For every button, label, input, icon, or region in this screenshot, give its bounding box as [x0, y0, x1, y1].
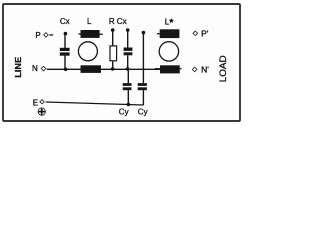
node junction dot top of Cx2 [126, 28, 130, 32]
svg-text:Cy: Cy [119, 108, 129, 117]
node junction dot Cy1 on earth line [127, 103, 131, 107]
wire earth line [46, 102, 144, 105]
capacitor Cy1 [123, 83, 132, 105]
terminal N' [192, 67, 197, 72]
capacitor Cx2 [124, 30, 133, 69]
wire N line [47, 68, 160, 70]
resistor R [110, 30, 117, 69]
node junction dot Cx1 on N line [64, 68, 68, 72]
svg-text:L: L [165, 17, 170, 26]
wire P stub [49, 34, 53, 36]
node junction dot R on N line [111, 67, 115, 71]
wire Cy2 branch vertical [142, 33, 144, 84]
svg-text:LOAD: LOAD [218, 55, 229, 82]
svg-text:LINE: LINE [13, 57, 23, 78]
node junction dot top of R [111, 28, 115, 32]
wire Cx2 down to Cy1 [127, 69, 129, 83]
svg-text:E: E [33, 98, 38, 107]
border frame [3, 4, 240, 121]
svg-text:N': N' [201, 65, 209, 75]
node junction dot top of Cy2 branch [142, 31, 146, 35]
svg-text:Cy: Cy [138, 108, 148, 117]
svg-text:Cx: Cx [117, 17, 127, 26]
capacitor Cx1 [60, 34, 70, 70]
node junction dot Cx2 on N line [126, 67, 130, 71]
inductor L* (common-mode choke) [155, 29, 182, 73]
svg-text:Cx: Cx [60, 17, 70, 26]
node junction dot top of Cx1 [64, 32, 68, 36]
inductor L (common-mode choke) [78, 30, 102, 73]
capacitor Cy2 [138, 83, 147, 105]
earth symbol [38, 108, 45, 115]
svg-text:N: N [32, 64, 38, 73]
svg-text:L: L [87, 17, 92, 26]
svg-text:P': P' [201, 29, 209, 39]
svg-text:P: P [35, 31, 40, 40]
terminal P' [193, 31, 198, 36]
svg-text:R: R [109, 17, 115, 26]
